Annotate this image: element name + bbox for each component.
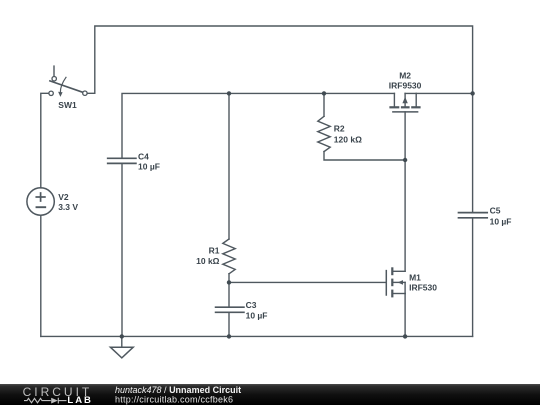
svg-text:C5: C5	[490, 206, 501, 216]
node R1 top junction	[227, 91, 231, 95]
wire V2 top to switch pole	[41, 93, 49, 188]
svg-text:M1: M1	[409, 273, 421, 283]
wire node to C3	[228, 282, 230, 307]
capacitor C4	[108, 158, 136, 163]
svg-text:10 kΩ: 10 kΩ	[196, 256, 220, 266]
wire R2 top	[323, 93, 325, 116]
wire main rail right section	[405, 92, 473, 94]
wire R2 bottom to node	[324, 152, 405, 160]
wire right vertical upper (to C5)	[472, 93, 474, 212]
svg-text:R2: R2	[334, 123, 345, 133]
svg-text:10 µF: 10 µF	[246, 310, 268, 320]
node R2 top junction	[322, 91, 326, 95]
node ground junction	[120, 334, 124, 338]
svg-text:LAB: LAB	[67, 395, 93, 405]
resistor R2	[318, 116, 330, 151]
logo motif resistor and diode	[24, 398, 67, 404]
MOSFET M1 IRF530	[386, 267, 405, 297]
wire switch output to top rail and down right side	[87, 26, 472, 93]
svg-text:SW1: SW1	[58, 100, 77, 110]
capacitor C3	[216, 307, 244, 312]
wire R1 top	[228, 93, 230, 239]
svg-text:R1: R1	[209, 246, 220, 256]
MOSFET M2 IRF9530	[389, 93, 420, 112]
wire bottom ground rail	[41, 335, 473, 337]
svg-text:C4: C4	[138, 151, 149, 161]
capacitor C5	[459, 213, 488, 218]
svg-text:3.3 V: 3.3 V	[58, 202, 78, 212]
wire M1 source to ground rail	[404, 294, 406, 337]
svg-text:C3: C3	[246, 300, 257, 310]
wire main rail left section with corner down to C4	[122, 93, 394, 157]
wire gate node to M1	[229, 281, 386, 283]
node M1 source junction	[403, 334, 407, 338]
switch SW1	[49, 66, 87, 97]
wire C4 bottom to ground rail	[121, 164, 123, 337]
svg-text:huntack478 / Unnamed Circuit: huntack478 / Unnamed Circuit	[115, 385, 241, 395]
resistor R1	[223, 239, 235, 274]
wire right vertical lower (C5 to bottom rail)	[472, 218, 474, 336]
svg-text:10 µF: 10 µF	[138, 162, 160, 172]
wire C3 bottom to ground rail	[228, 313, 230, 337]
wire V2 bottom to rail	[40, 215, 42, 336]
node right rail junction	[470, 91, 474, 95]
ground	[110, 336, 133, 358]
svg-text:http://circuitlab.com/ccfbek6: http://circuitlab.com/ccfbek6	[115, 394, 233, 404]
svg-text:M2: M2	[399, 70, 411, 80]
footer bar	[0, 384, 540, 405]
node M2 gate / R2 / M1 drain junction	[403, 158, 407, 162]
svg-text:120 kΩ: 120 kΩ	[334, 135, 362, 145]
svg-text:IRF530: IRF530	[409, 283, 437, 293]
wire R1 bottom to node	[228, 274, 230, 283]
wire M2 gate to node	[404, 112, 406, 160]
wire node to M1 drain	[404, 160, 406, 271]
voltage source V2	[27, 188, 54, 215]
svg-text:10 µF: 10 µF	[490, 216, 512, 226]
svg-text:V2: V2	[58, 192, 69, 202]
svg-text:IRF9530: IRF9530	[389, 81, 422, 91]
node R1 / C3 / M1 gate junction	[227, 280, 231, 284]
node C3 bottom junction	[227, 334, 231, 338]
